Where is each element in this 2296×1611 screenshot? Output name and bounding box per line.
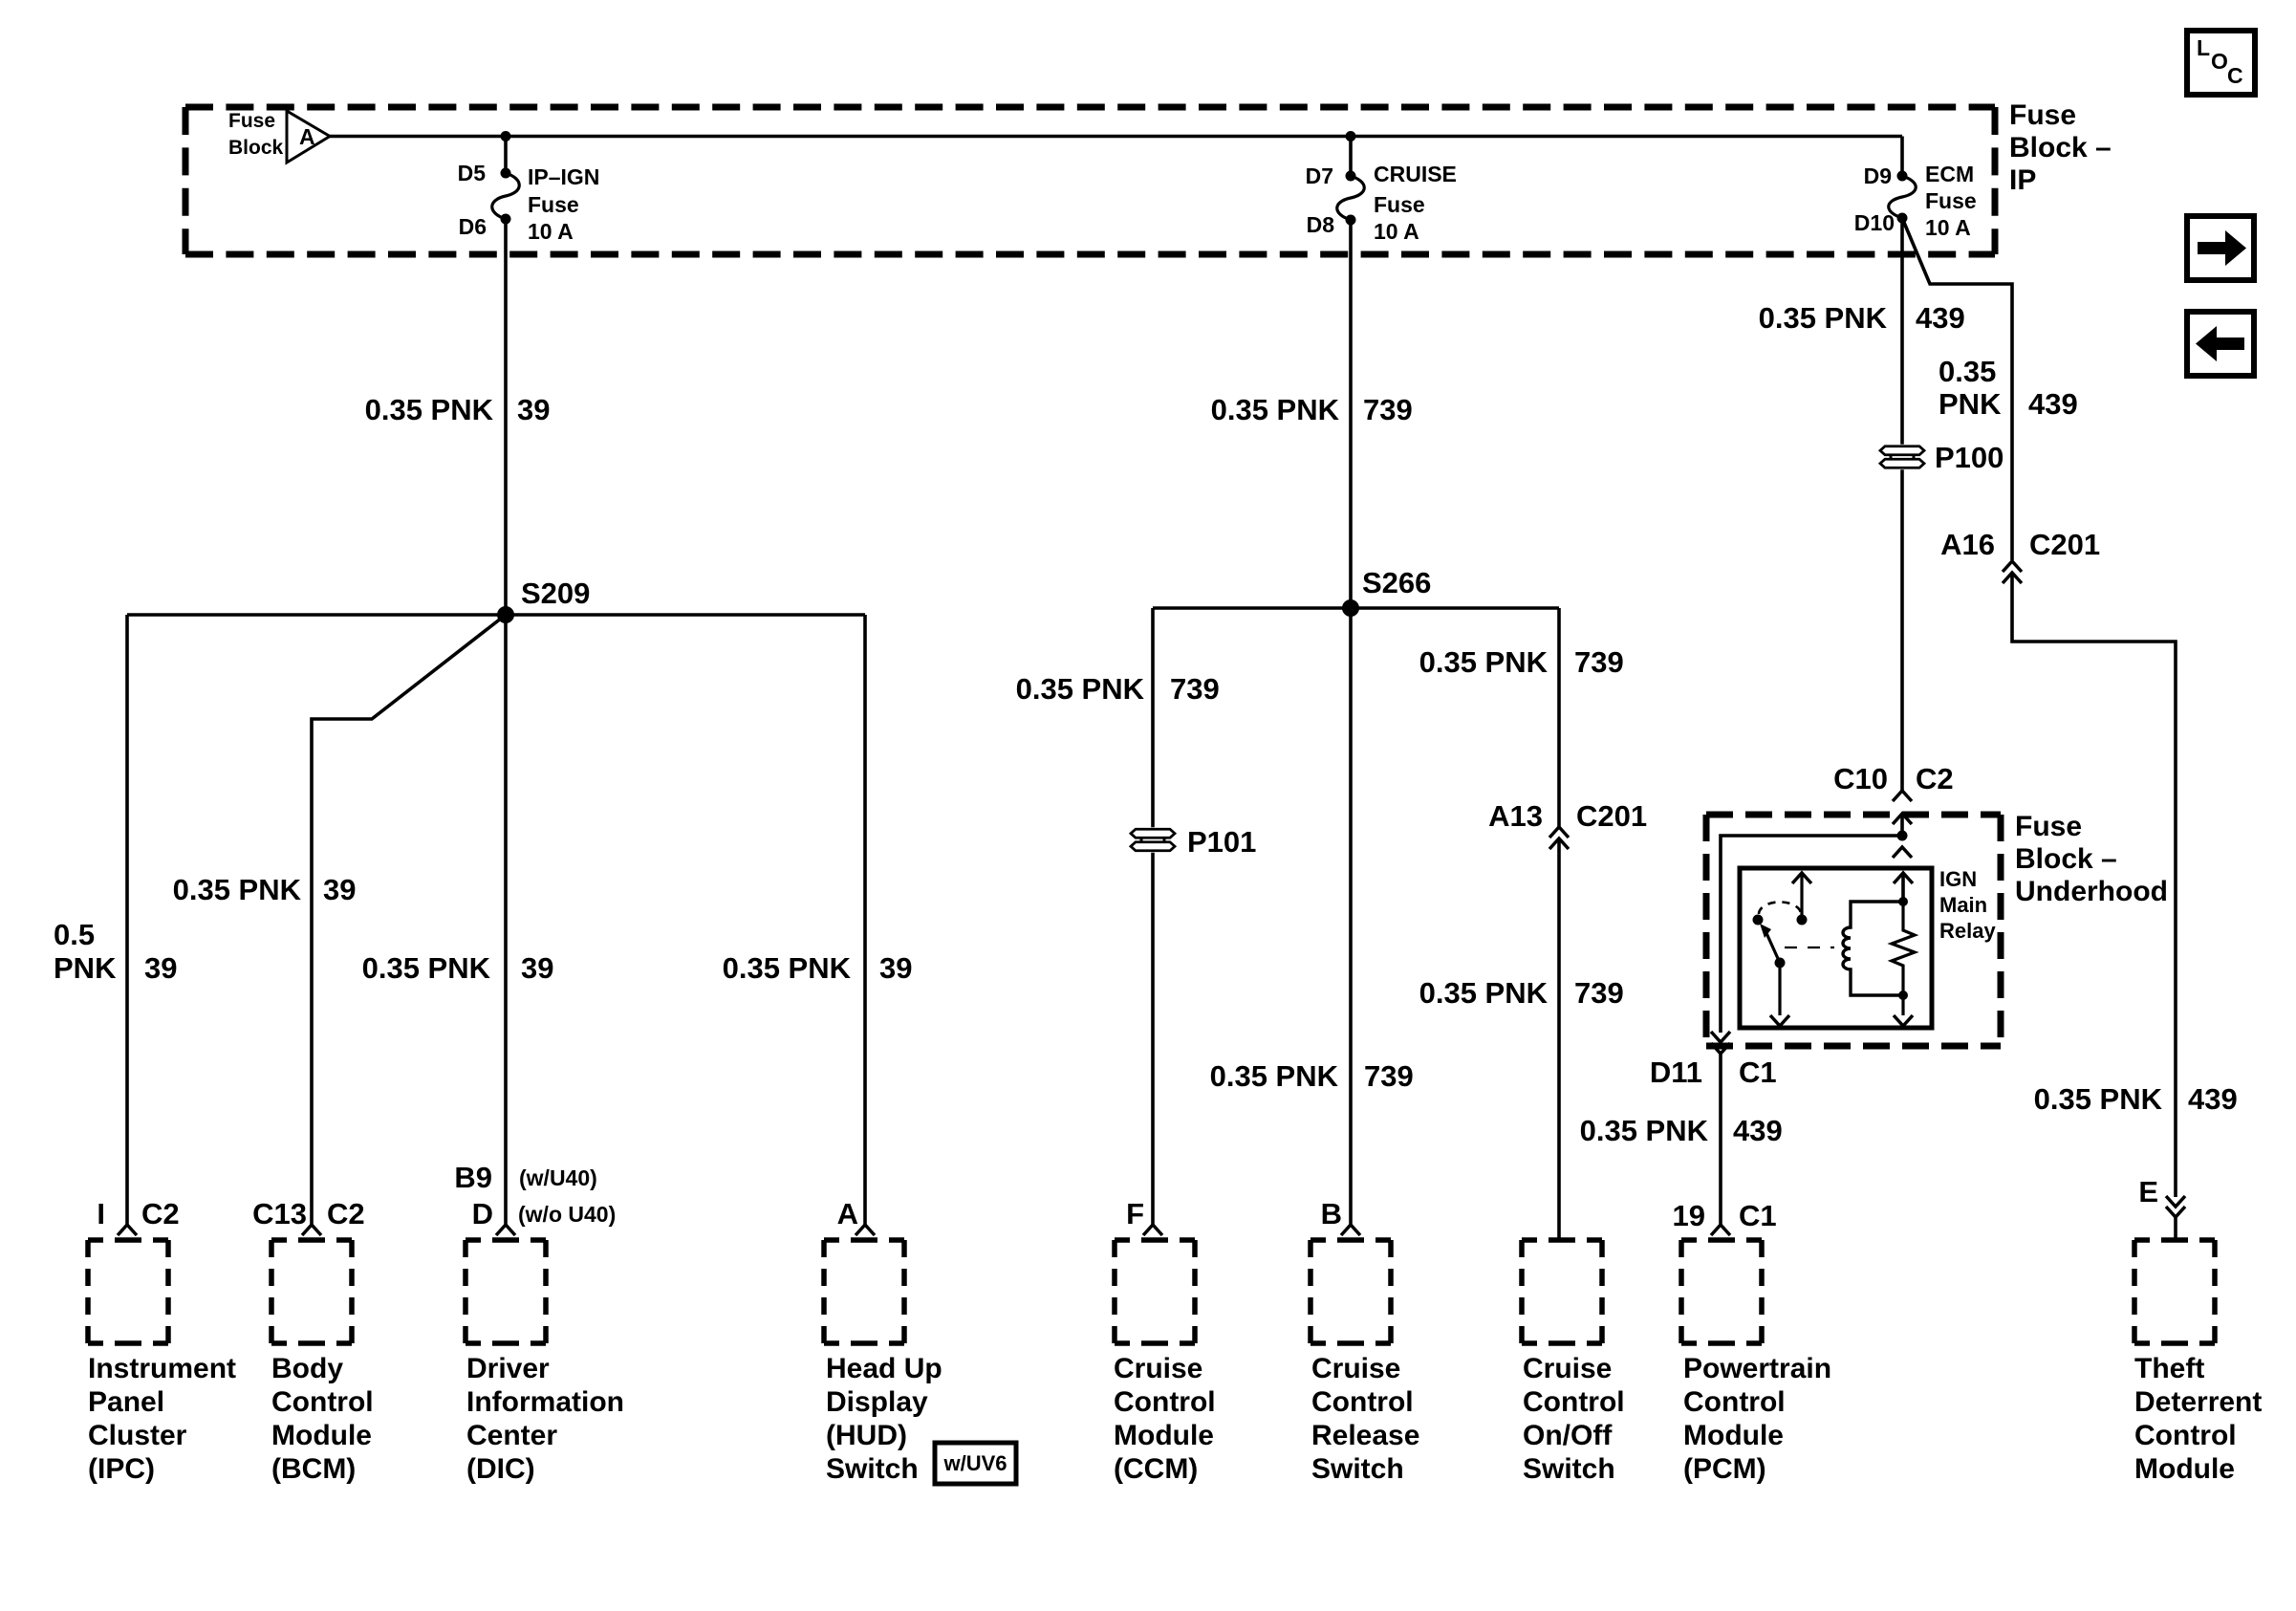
svg-text:D11: D11 xyxy=(1650,1056,1702,1089)
svg-text:D: D xyxy=(472,1197,493,1230)
svg-text:Control: Control xyxy=(1114,1386,1216,1418)
svg-text:Cruise: Cruise xyxy=(1114,1353,1202,1384)
svg-text:PNK: PNK xyxy=(1939,387,2002,421)
svg-text:Block: Block xyxy=(228,137,284,159)
wire drop to CCM xyxy=(1151,608,1155,1225)
svg-text:Cluster: Cluster xyxy=(88,1420,187,1451)
svg-text:C2: C2 xyxy=(1916,762,1954,795)
relay switch fixed contact xyxy=(1753,915,1764,925)
svg-text:C1: C1 xyxy=(1739,1199,1777,1232)
relay switch exit chevron xyxy=(1770,1015,1789,1026)
svg-text:Module: Module xyxy=(1114,1420,1214,1451)
relay socket chevron inside xyxy=(1894,873,1913,883)
wire into theft module xyxy=(2174,1217,2177,1240)
svg-text:0.35 PNK: 0.35 PNK xyxy=(1419,645,1549,679)
svg-text:I: I xyxy=(97,1197,105,1230)
svg-text:F: F xyxy=(1126,1197,1144,1230)
wire S209 horizontal rail xyxy=(127,613,865,617)
svg-text:739: 739 xyxy=(1170,672,1220,706)
fuse CRUISE 10 A xyxy=(1346,171,1356,182)
svg-text:439: 439 xyxy=(1733,1114,1783,1147)
relay resistor exit chevron xyxy=(1894,1015,1913,1026)
svg-text:(BCM): (BCM) xyxy=(271,1453,356,1485)
junction dot relay feed xyxy=(1897,831,1908,841)
svg-text:Driver: Driver xyxy=(466,1353,550,1384)
svg-text:Cruise: Cruise xyxy=(1311,1353,1400,1384)
pass-through connector at theft module E xyxy=(2166,1196,2185,1207)
main bus wire from terminal A xyxy=(330,135,1902,139)
svg-text:Fuse: Fuse xyxy=(1374,192,1425,217)
svg-text:C201: C201 xyxy=(2029,528,2100,561)
svg-text:D5: D5 xyxy=(458,161,487,185)
svg-text:A13: A13 xyxy=(1488,799,1543,833)
bus corner down to ECM fuse xyxy=(1900,137,1904,177)
svg-text:(PCM): (PCM) xyxy=(1683,1453,1766,1485)
relay coil top node dot xyxy=(1898,897,1908,906)
svg-text:S266: S266 xyxy=(1362,566,1431,599)
svg-text:(w/U40): (w/U40) xyxy=(519,1165,597,1190)
svg-text:0.35 PNK: 0.35 PNK xyxy=(1419,976,1549,1010)
svg-text:Cruise: Cruise xyxy=(1523,1353,1612,1384)
svg-text:A16: A16 xyxy=(1940,528,1995,561)
svg-text:Block –: Block – xyxy=(2009,132,2112,163)
svg-text:Switch: Switch xyxy=(1311,1453,1404,1485)
svg-text:Switch: Switch xyxy=(1523,1453,1615,1485)
svg-text:39: 39 xyxy=(517,393,550,426)
svg-text:Block –: Block – xyxy=(2015,843,2117,875)
relay switch travel arc dashed xyxy=(1759,902,1801,914)
fuse block - IP dashed outline xyxy=(185,104,1995,111)
svg-text:439: 439 xyxy=(2188,1082,2238,1116)
svg-text:0.35 PNK: 0.35 PNK xyxy=(173,873,302,906)
cruise release switch connector xyxy=(1341,1225,1360,1235)
splice S266 xyxy=(1342,599,1359,617)
svg-text:739: 739 xyxy=(1574,976,1624,1010)
svg-text:IP: IP xyxy=(2009,164,2036,196)
svg-text:ECM: ECM xyxy=(1925,162,1974,186)
svg-text:w/UV6: w/UV6 xyxy=(942,1451,1007,1475)
relay switch pivot wire down xyxy=(1778,963,1781,1015)
relay upper contact wire and chevron xyxy=(1792,873,1811,883)
svg-text:Control: Control xyxy=(1683,1386,1786,1418)
svg-text:D7: D7 xyxy=(1306,163,1333,188)
svg-text:IGN: IGN xyxy=(1939,867,1977,891)
svg-text:P100: P100 xyxy=(1935,441,2004,474)
next page arrow xyxy=(2187,216,2254,280)
svg-text:739: 739 xyxy=(1364,1059,1414,1093)
svg-text:D10: D10 xyxy=(1854,210,1895,235)
wire S266 horizontal rail xyxy=(1153,606,1559,610)
svg-text:Body: Body xyxy=(271,1353,343,1384)
branch wire D10 to C201 A16 xyxy=(1902,218,2012,560)
wire D8 down to splice S266 xyxy=(1349,220,1353,608)
feed terminal A triangle xyxy=(287,111,330,163)
inline connector P100 xyxy=(1878,445,1926,470)
svg-text:Module: Module xyxy=(271,1420,372,1451)
wire tap down to D5 xyxy=(504,137,508,174)
svg-text:Control: Control xyxy=(271,1386,374,1418)
wire drop to DIC xyxy=(504,615,508,1225)
svg-text:Fuse: Fuse xyxy=(2015,811,2082,842)
svg-text:(CCM): (CCM) xyxy=(1114,1453,1198,1485)
cruise on/off switch connector xyxy=(1522,1237,1602,1243)
svg-text:C1: C1 xyxy=(1739,1056,1777,1089)
svg-text:C10: C10 xyxy=(1833,762,1888,795)
svg-text:Module: Module xyxy=(2134,1453,2235,1485)
svg-text:10 A: 10 A xyxy=(1374,219,1419,244)
previous page arrow xyxy=(2187,312,2254,376)
fuse ECM 10 A xyxy=(1897,171,1908,182)
svg-text:Head Up: Head Up xyxy=(826,1353,942,1384)
IGN main relay box xyxy=(1740,868,1932,1028)
svg-text:39: 39 xyxy=(144,951,177,985)
svg-text:Powertrain: Powertrain xyxy=(1683,1353,1831,1384)
svg-text:B9: B9 xyxy=(454,1161,492,1194)
svg-text:Fuse: Fuse xyxy=(2009,99,2076,131)
svg-text:IP–IGN: IP–IGN xyxy=(528,164,599,189)
wire tap down to D7 xyxy=(1349,137,1353,177)
svg-text:0.35 PNK: 0.35 PNK xyxy=(1580,1114,1709,1147)
fuse block - underhood dashed outline xyxy=(1706,812,2001,818)
svg-text:39: 39 xyxy=(879,951,912,985)
LOC page symbol xyxy=(2187,31,2255,95)
wire D6 down to splice S209 xyxy=(504,219,508,615)
svg-text:0.5: 0.5 xyxy=(54,918,95,951)
svg-text:Panel: Panel xyxy=(88,1386,164,1418)
svg-text:Fuse: Fuse xyxy=(528,192,579,217)
wire diagonal + drop to BCM xyxy=(312,615,506,1225)
wire to relay feed junction xyxy=(1900,814,1904,836)
svg-text:39: 39 xyxy=(521,951,553,985)
svg-text:10 A: 10 A xyxy=(1925,215,1971,240)
svg-text:Control: Control xyxy=(1523,1386,1625,1418)
svg-text:Fuse: Fuse xyxy=(1925,188,1977,213)
wire on/off switch lower segment xyxy=(1557,838,1561,1240)
svg-text:C2: C2 xyxy=(141,1197,180,1230)
svg-text:C201: C201 xyxy=(1576,799,1647,833)
w/UV6 tag xyxy=(935,1443,1016,1484)
svg-text:(HUD): (HUD) xyxy=(826,1420,907,1451)
driver information center connector xyxy=(496,1225,515,1235)
svg-text:0.35 PNK: 0.35 PNK xyxy=(365,393,494,426)
svg-text:O: O xyxy=(2211,49,2228,74)
relay resistor xyxy=(1892,902,1915,995)
wire drop to IPC xyxy=(125,615,129,1225)
svg-text:D9: D9 xyxy=(1864,163,1892,188)
svg-text:Instrument: Instrument xyxy=(88,1353,236,1384)
svg-text:On/Off: On/Off xyxy=(1523,1420,1613,1451)
svg-text:0.35 PNK: 0.35 PNK xyxy=(723,951,852,985)
svg-text:0.35 PNK: 0.35 PNK xyxy=(362,951,491,985)
svg-text:(DIC): (DIC) xyxy=(466,1453,535,1485)
svg-text:D6: D6 xyxy=(459,214,487,239)
relay coil xyxy=(1843,902,1903,995)
wire junction to left exit of underhood block xyxy=(1721,836,1902,1033)
theft deterrent module connector xyxy=(2134,1237,2215,1243)
powertrain control module connector xyxy=(1711,1225,1730,1235)
wire into relay resistor/coil node xyxy=(1901,873,1905,902)
svg-text:PNK: PNK xyxy=(54,951,117,985)
svg-text:Center: Center xyxy=(466,1420,557,1451)
svg-text:S209: S209 xyxy=(521,577,590,610)
wire drop to cruise release switch xyxy=(1349,608,1353,1225)
connector C10 C2 into underhood fuse block xyxy=(1893,791,1912,801)
pass-through connector A16 C201 xyxy=(2003,561,2022,572)
svg-text:A: A xyxy=(837,1197,858,1230)
svg-text:Underhood: Underhood xyxy=(2015,876,2168,907)
relay switch pivot xyxy=(1775,958,1786,969)
svg-text:Relay: Relay xyxy=(1939,919,1996,943)
head up display switch connector xyxy=(856,1225,875,1235)
svg-text:0.35 PNK: 0.35 PNK xyxy=(2034,1082,2163,1116)
svg-text:Fuse: Fuse xyxy=(228,110,275,132)
svg-text:Main: Main xyxy=(1939,893,1987,917)
svg-text:39: 39 xyxy=(323,873,356,906)
svg-text:739: 739 xyxy=(1363,393,1413,426)
svg-text:C13: C13 xyxy=(252,1197,307,1230)
svg-text:Control: Control xyxy=(2134,1420,2237,1451)
relay switch upper contact xyxy=(1797,915,1808,925)
svg-text:B: B xyxy=(1321,1197,1342,1230)
pass-through connector A13 C201 xyxy=(1549,827,1569,838)
svg-text:CRUISE: CRUISE xyxy=(1374,162,1457,186)
svg-text:0.35: 0.35 xyxy=(1939,355,1996,388)
body control module connector xyxy=(302,1225,321,1235)
svg-text:A: A xyxy=(299,124,315,149)
svg-text:0.35 PNK: 0.35 PNK xyxy=(1016,672,1145,706)
svg-text:Release: Release xyxy=(1311,1420,1419,1451)
junction dot at CRUISE fuse tap xyxy=(1346,131,1356,142)
svg-text:0.35 PNK: 0.35 PNK xyxy=(1211,393,1340,426)
svg-text:439: 439 xyxy=(1916,301,1965,335)
svg-text:Deterrent: Deterrent xyxy=(2134,1386,2262,1418)
svg-text:D8: D8 xyxy=(1307,212,1335,237)
junction dot at IP-IGN fuse tap xyxy=(501,131,511,142)
wire drop to HUD switch xyxy=(863,615,867,1225)
instrument panel cluster connector xyxy=(118,1225,137,1235)
svg-text:439: 439 xyxy=(2028,387,2078,421)
connector chevron inside underhood block xyxy=(1893,814,1912,824)
splice S209 xyxy=(497,606,514,623)
relay resistor exit wire xyxy=(1901,995,1904,1015)
svg-text:0.35 PNK: 0.35 PNK xyxy=(1759,301,1888,335)
svg-text:C2: C2 xyxy=(327,1197,365,1230)
exit chevrons D11 xyxy=(1711,1032,1730,1042)
svg-text:19: 19 xyxy=(1673,1199,1705,1232)
svg-text:L: L xyxy=(2197,35,2210,60)
relay socket chevron above xyxy=(1893,847,1912,858)
svg-text:P101: P101 xyxy=(1187,825,1256,859)
svg-text:Display: Display xyxy=(826,1386,928,1418)
svg-text:Control: Control xyxy=(1311,1386,1414,1418)
relay coil bottom node dot xyxy=(1898,991,1908,1000)
cruise control module connector xyxy=(1143,1225,1162,1235)
svg-text:E: E xyxy=(2138,1175,2158,1208)
fuse IP-IGN 10 A xyxy=(501,168,511,179)
wire C201 down and over to theft module xyxy=(2012,573,2176,1197)
svg-text:(w/o U40): (w/o U40) xyxy=(518,1202,616,1227)
wire drop to on/off switch upper segment xyxy=(1557,608,1561,827)
svg-text:10 A: 10 A xyxy=(528,219,574,244)
svg-text:Theft: Theft xyxy=(2134,1353,2204,1384)
svg-text:(IPC): (IPC) xyxy=(88,1453,155,1485)
svg-text:Switch: Switch xyxy=(826,1453,919,1485)
svg-text:C: C xyxy=(2227,63,2243,88)
inline connector P101 xyxy=(1129,827,1177,853)
svg-text:0.35 PNK: 0.35 PNK xyxy=(1210,1059,1339,1093)
relay switch arm with arrowhead xyxy=(1766,933,1780,963)
svg-text:Module: Module xyxy=(1683,1420,1784,1451)
svg-text:739: 739 xyxy=(1574,645,1624,679)
wire D10 down to underhood fuse block xyxy=(1900,218,1904,791)
svg-text:Information: Information xyxy=(466,1386,624,1418)
relay actuation dashed link xyxy=(1785,947,1834,948)
wire down to PCM xyxy=(1719,1054,1722,1225)
